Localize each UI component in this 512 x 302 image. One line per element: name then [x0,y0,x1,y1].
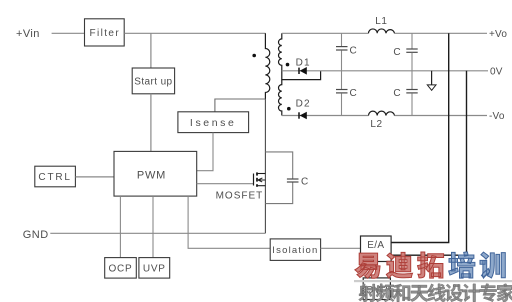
wire Filter to transformer primary [124,32,265,34]
inductor L2 [369,111,395,115]
capacitor C4 plates [406,89,417,91]
transformer T1 secondary top winding [279,33,321,79]
svg-text:GND: GND [23,229,49,241]
watermark underline [354,280,512,282]
Isense box [178,112,249,133]
svg-text:UVP: UVP [143,264,166,275]
ground symbol [427,71,436,91]
watermark slogan char 射 [359,284,377,302]
svg-text:CTRL: CTRL [38,172,71,183]
OCP box [105,258,137,279]
watermark slogan char 设 [445,284,463,302]
wire PWM to OCP [119,196,121,258]
wire PWM to UVP [152,196,154,258]
svg-text:0V: 0V [490,67,503,78]
capacitor C3 plates [406,48,417,50]
inductor L1 [369,29,395,33]
wire PWM to Isolation [188,196,270,248]
op-amp E/A box [361,236,392,262]
svg-text:+Vo: +Vo [489,29,507,40]
diode D2 [299,112,307,120]
diode D1 [299,67,307,75]
watermark logo char 拓 [418,252,444,278]
svg-text:MOSFET: MOSFET [216,190,264,201]
svg-text:D2: D2 [296,99,311,110]
svg-text:C: C [350,45,357,56]
capacitor C snubber branch wires [265,152,292,179]
wire CTRL to PWM [75,176,114,178]
watermark slogan char 专 [480,284,497,302]
watermark slogan char 天 [411,285,429,302]
transformer T1 primary winding [265,33,269,99]
svg-text:Start up: Start up [134,77,172,88]
wire -Vo rail [282,115,369,117]
UVP box [139,258,170,279]
svg-text:Filter: Filter [89,28,120,39]
svg-text:OCP: OCP [108,264,132,275]
watermark slogan char 计 [462,284,480,302]
watermark slogan char 和 [393,284,410,302]
watermark slogan char 家 [497,284,512,302]
watermark slogan char 频 [376,284,394,302]
watermark logo char 培 [449,252,475,278]
capacitor C3/C4 column wire middle [411,53,413,89]
svg-text:C: C [301,177,308,188]
OVP box [363,278,390,300]
CTRL box [35,166,76,187]
capacitor C snubber plates [287,178,299,180]
wire 0V feedback to E/A [391,71,466,255]
secondary top winding polarity dot [286,63,290,67]
svg-text:Isense: Isense [190,117,237,129]
wire +Vo feedback to E/A [391,33,449,242]
svg-text:Isolation: Isolation [272,245,318,256]
capacitor C1/C2 column wire middle [341,50,343,89]
Start up box [132,68,174,94]
svg-text:+Vin: +Vin [16,28,40,40]
PWM box U1 [114,151,197,196]
svg-text:E/A: E/A [367,240,384,251]
transistor Q1 MOSFET symbol [254,172,266,186]
wire junction to Start up [150,33,152,68]
wire drain-source main line [264,99,266,233]
watermark logo char 易 [355,253,380,278]
capacitor C2 column wire bottom [341,93,343,115]
svg-text:L1: L1 [375,16,387,27]
svg-text:C: C [350,88,357,99]
wire +Vin to Filter [52,32,85,34]
secondary bottom winding polarity dot [287,107,291,111]
svg-text:-Vo: -Vo [489,111,505,122]
capacitor C3 column wire top [411,33,413,48]
watermark slogan char 线 [428,284,446,302]
transformer primary polarity dot [252,54,256,58]
wire 0V rail [282,70,488,72]
svg-text:C: C [393,47,400,58]
wire Start up to PWM [150,94,152,152]
capacitor C2 plates [336,89,348,91]
Isolation box [270,239,320,261]
wire GND rail [50,232,265,234]
wire +Vo rail [282,32,369,34]
wire primary bottom to Isense [215,99,266,112]
Filter box [85,19,125,46]
svg-text:L2: L2 [370,119,382,130]
watermark logo char 训 [480,252,505,278]
wire Isolation to E/A [321,247,361,249]
svg-text:PWM: PWM [137,169,166,181]
transformer T1 secondary bottom winding [279,80,282,116]
wire Isense to PWM [197,133,213,171]
svg-text:D1: D1 [296,57,311,68]
svg-text:C: C [393,88,400,99]
capacitor C1 plates [336,46,348,48]
capacitor C4 column wire bottom [411,93,413,115]
watermark logo char 迪 [386,252,412,278]
wire E/A to OVP [375,262,377,278]
capacitor C1 column wire top [341,33,343,46]
wire PWM gate drive [197,183,254,185]
